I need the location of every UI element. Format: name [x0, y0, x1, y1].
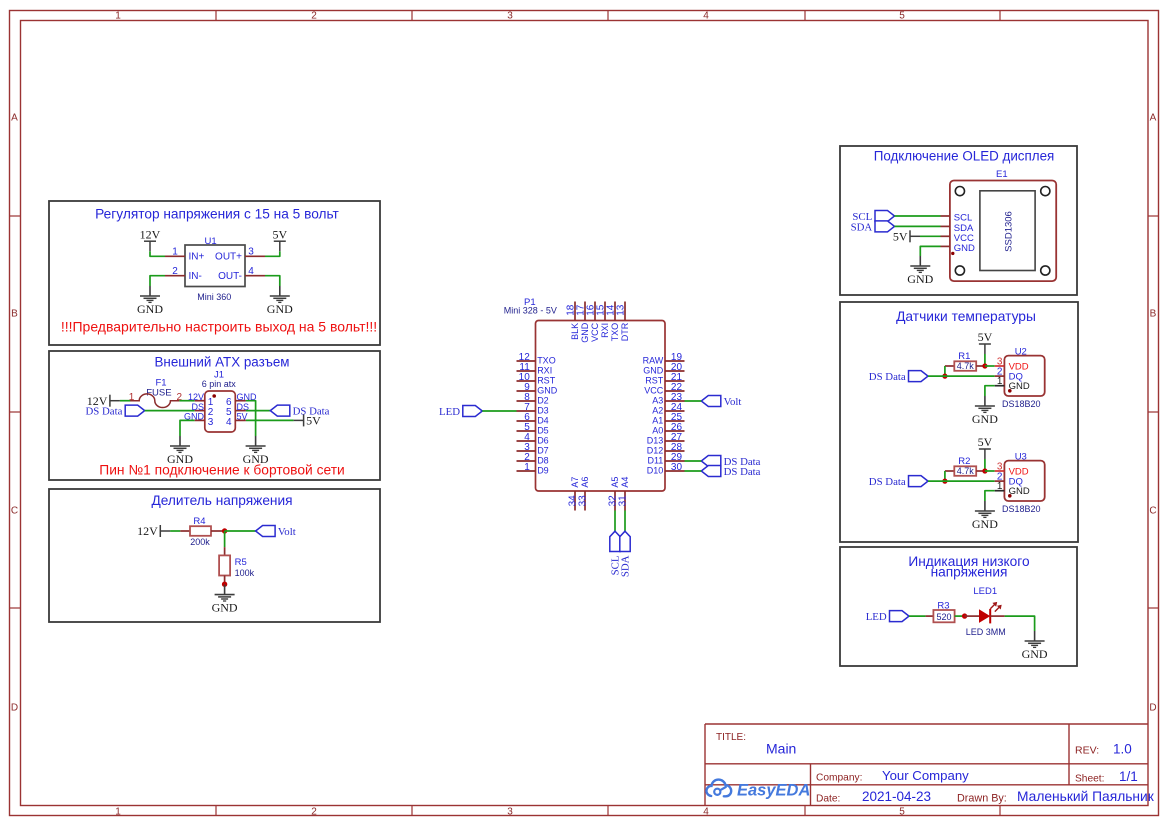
pin 26 (A0): [652, 422, 684, 436]
svg-text:1/1: 1/1: [1119, 769, 1138, 784]
temperature sensor U3: [995, 452, 1045, 515]
pin 25 (A1): [652, 412, 684, 426]
svg-text:GND: GND: [643, 366, 664, 376]
svg-text:GND: GND: [907, 272, 933, 286]
svg-text:5V: 5V: [893, 229, 908, 243]
power flag 12V (regulator): [140, 227, 161, 251]
wire: [246, 401, 256, 436]
pin 20 (GND): [643, 362, 684, 376]
svg-text:A7: A7: [570, 477, 580, 488]
net port Volt (divider): [256, 526, 296, 538]
svg-text:DTR: DTR: [620, 322, 630, 341]
wire: [920, 235, 941, 237]
svg-text:4: 4: [226, 417, 232, 428]
svg-text:B: B: [1150, 309, 1157, 320]
svg-text:DS Data: DS Data: [869, 371, 906, 383]
pin 33 (A6): [577, 477, 590, 511]
svg-text:3: 3: [507, 807, 513, 818]
svg-text:D12: D12: [647, 446, 664, 456]
pin 7 (D3): [517, 402, 549, 416]
svg-text:DS: DS: [191, 402, 204, 412]
net port LED (indicator): [866, 611, 909, 623]
svg-text:OUT+: OUT+: [215, 252, 242, 263]
svg-text:TXO: TXO: [537, 356, 556, 366]
wire: [920, 246, 940, 256]
wire: [170, 530, 180, 532]
svg-text:3: 3: [208, 417, 214, 428]
svg-text:1: 1: [115, 807, 121, 818]
wire: [928, 480, 995, 482]
resistor R5: [219, 547, 255, 584]
net port SCL (mcu): [609, 531, 621, 575]
svg-text:Sheet:: Sheet:: [1075, 774, 1104, 785]
svg-text:GND: GND: [537, 386, 558, 396]
resistor R1: [945, 351, 985, 371]
svg-text:Drawn By:: Drawn By:: [957, 793, 1007, 805]
svg-text:Датчики температуры: Датчики температуры: [896, 309, 1036, 324]
svg-text:4: 4: [248, 266, 254, 277]
fuse F1: [129, 378, 183, 408]
connector J1: [184, 370, 257, 433]
svg-text:D: D: [11, 703, 18, 714]
wire: [624, 511, 626, 532]
svg-text:GND: GND: [972, 517, 998, 531]
svg-text:GND: GND: [137, 302, 163, 316]
pin 4 (D6): [517, 432, 549, 446]
svg-text:DS Data: DS Data: [724, 466, 761, 478]
svg-text:REV:: REV:: [1075, 745, 1099, 757]
OLED display E1: [941, 169, 1057, 281]
wire: [895, 225, 941, 227]
pin 30 (D10): [647, 462, 685, 476]
svg-text:RXI: RXI: [537, 366, 552, 376]
pin 14 (TXO): [605, 302, 620, 342]
microcontroller module P1: [504, 297, 665, 491]
section box: temperature sensors: [840, 302, 1078, 542]
svg-text:VCC: VCC: [644, 386, 664, 396]
svg-text:1: 1: [129, 392, 135, 403]
svg-text:EasyEDA: EasyEDA: [737, 782, 810, 800]
wire: [145, 410, 195, 412]
wire: [265, 251, 280, 256]
net port DS Data (U2): [869, 371, 928, 383]
svg-text:DS Data: DS Data: [869, 476, 906, 488]
pin 9 (GND): [517, 382, 558, 396]
wire: [985, 386, 995, 396]
svg-text:D11: D11: [647, 456, 663, 466]
section box: OLED display: [840, 146, 1077, 295]
section box: external ATX connector: [49, 351, 380, 480]
svg-text:RST: RST: [645, 376, 664, 386]
svg-text:DS18B20: DS18B20: [1002, 399, 1041, 409]
ground: [972, 396, 998, 426]
svg-text:A: A: [1150, 113, 1157, 124]
svg-text:12V: 12V: [140, 227, 161, 241]
svg-text:FUSE: FUSE: [146, 387, 171, 398]
pin 15 (RXI): [595, 302, 610, 338]
ground: [1022, 631, 1048, 661]
net port DS Data (mcu D11): [701, 456, 760, 468]
svg-text:33: 33: [577, 495, 588, 507]
ground: [907, 256, 933, 286]
svg-text:Company:: Company:: [816, 773, 862, 784]
pin 23 (A3): [652, 392, 684, 406]
svg-text:GND: GND: [1009, 381, 1030, 392]
svg-text:1: 1: [997, 481, 1003, 492]
svg-text:A0: A0: [652, 426, 663, 436]
wire: [944, 366, 946, 376]
ground: [972, 501, 998, 531]
svg-text:Регулятор напряжения с 15 на 5: Регулятор напряжения с 15 на 5 вольт: [95, 207, 339, 222]
svg-text:RAW: RAW: [643, 356, 664, 366]
wire: [246, 419, 294, 421]
net port LED (mcu): [439, 406, 482, 418]
svg-text:D9: D9: [537, 466, 549, 476]
net port SCL (oled): [852, 211, 894, 223]
wire: [150, 251, 165, 256]
svg-text:OUT-: OUT-: [218, 271, 242, 282]
net port DS Data (atx left): [86, 405, 145, 417]
svg-text:B: B: [11, 309, 18, 320]
svg-text:U1: U1: [205, 236, 217, 247]
section box: low voltage indication: [840, 547, 1077, 666]
svg-text:!!!Предварительно настроить вы: !!!Предварительно настроить выход на 5 в…: [61, 319, 377, 335]
svg-text:GND: GND: [1022, 647, 1048, 661]
pin 8 (D2): [517, 392, 549, 406]
svg-text:IN+: IN+: [189, 252, 205, 263]
svg-text:13: 13: [615, 304, 626, 316]
power flag 5V (oled): [893, 229, 920, 243]
svg-text:C: C: [11, 506, 18, 517]
junction: [942, 479, 947, 484]
svg-text:30: 30: [671, 462, 683, 473]
pin 28 (D12): [647, 442, 685, 456]
svg-text:5: 5: [899, 11, 905, 22]
svg-text:SDA: SDA: [619, 555, 631, 577]
svg-text:TITLE:: TITLE:: [716, 732, 746, 743]
svg-text:Mini 328 - 5V: Mini 328 - 5V: [504, 305, 557, 315]
pin 12 (TXO): [517, 352, 556, 366]
pin 19 (RAW): [643, 352, 685, 366]
svg-text:5V: 5V: [978, 435, 993, 449]
svg-text:Main: Main: [766, 741, 796, 757]
wire: [909, 615, 926, 617]
junction: [982, 363, 987, 368]
svg-text:4: 4: [703, 807, 709, 818]
pin 13 (DTR): [615, 302, 630, 342]
ground: [137, 286, 163, 316]
svg-text:VCC: VCC: [590, 322, 600, 342]
svg-text:1: 1: [115, 11, 121, 22]
svg-text:SDA: SDA: [851, 221, 873, 233]
svg-text:LED: LED: [866, 611, 887, 623]
svg-text:E1: E1: [996, 169, 1008, 180]
svg-text:3: 3: [248, 247, 254, 258]
svg-text:LED1: LED1: [973, 586, 997, 597]
wire: [685, 400, 702, 402]
svg-text:D4: D4: [537, 416, 549, 426]
resistor R4: [180, 516, 224, 547]
svg-text:C: C: [1149, 506, 1156, 517]
svg-text:RXI: RXI: [600, 323, 610, 338]
header text LED indication: [908, 554, 1030, 580]
svg-text:A5: A5: [610, 477, 620, 488]
wire: [944, 471, 946, 481]
pin 10 (RST): [517, 372, 556, 386]
power flag 5V (U3): [978, 435, 993, 459]
resistor R3: [926, 600, 964, 622]
svg-text:Volt: Volt: [724, 396, 742, 408]
svg-text:5V: 5V: [237, 412, 248, 422]
svg-text:5V: 5V: [272, 227, 287, 241]
wire: [685, 470, 702, 472]
svg-text:GND: GND: [954, 243, 975, 254]
junction: [222, 528, 227, 533]
svg-text:3: 3: [507, 11, 513, 22]
svg-text:12V: 12V: [188, 392, 204, 402]
pin 11 (RXI): [517, 362, 553, 376]
svg-text:SCL: SCL: [954, 213, 972, 224]
resistor R2: [945, 456, 985, 476]
svg-text:4.7k: 4.7k: [957, 466, 975, 476]
section box: voltage divider: [49, 489, 380, 622]
net port DS Data (mcu D10): [701, 466, 760, 478]
pin 21 (RST): [645, 372, 684, 386]
net port DS Data (U3): [869, 476, 928, 488]
pin 6 (D4): [517, 412, 549, 426]
wire: [180, 420, 195, 436]
svg-text:200k: 200k: [190, 537, 210, 547]
wire: [482, 410, 516, 412]
ground: [243, 436, 269, 466]
svg-text:1: 1: [524, 462, 530, 473]
wire: [179, 400, 194, 402]
net port Volt (mcu): [701, 396, 741, 408]
svg-text:Mini 360: Mini 360: [197, 292, 231, 302]
svg-text:A4: A4: [620, 477, 630, 488]
svg-text:Делитель напряжения: Делитель напряжения: [151, 493, 292, 508]
svg-text:Маленький Паяльник: Маленький Паяльник: [1017, 789, 1155, 804]
wire: [225, 530, 256, 532]
ground: [167, 436, 193, 466]
pin 18 (BLK): [565, 302, 580, 340]
junction: [222, 582, 227, 587]
svg-text:Volt: Volt: [278, 526, 296, 538]
svg-text:5V: 5V: [306, 414, 321, 428]
svg-text:A2: A2: [652, 406, 663, 416]
pin 22 (VCC): [644, 382, 684, 396]
svg-text:A3: A3: [652, 396, 663, 406]
regulator U1: [165, 236, 265, 302]
svg-text:4: 4: [703, 11, 709, 22]
svg-text:GND: GND: [243, 452, 269, 466]
power flag 12V (atx): [87, 394, 120, 408]
svg-text:Date:: Date:: [816, 794, 840, 805]
power flag 5V (regulator): [272, 227, 287, 251]
pin 34 (A7): [567, 477, 580, 511]
junction: [982, 468, 987, 473]
svg-text:4.7k: 4.7k: [957, 361, 975, 371]
title block: [705, 724, 1155, 806]
svg-text:520: 520: [936, 612, 951, 622]
svg-text:2021-04-23: 2021-04-23: [862, 789, 931, 804]
svg-text:D8: D8: [537, 456, 549, 466]
pin 27 (D13): [647, 432, 685, 446]
pin 29 (D11): [647, 452, 684, 466]
svg-text:A: A: [11, 113, 18, 124]
svg-text:2: 2: [311, 11, 317, 22]
svg-text:D: D: [1149, 703, 1156, 714]
pin 2 (D8): [517, 452, 549, 466]
svg-text:GND: GND: [267, 302, 293, 316]
svg-text:IN-: IN-: [189, 271, 202, 282]
wire: [120, 400, 131, 402]
svg-text:6 pin atx: 6 pin atx: [202, 379, 237, 389]
svg-text:A1: A1: [652, 416, 663, 426]
power flag 5V (U2): [978, 330, 993, 354]
wire: [928, 375, 995, 377]
power flag 12V (divider): [137, 524, 170, 538]
temperature sensor U2: [995, 347, 1045, 410]
pin 32 (A5): [607, 477, 620, 511]
svg-text:2: 2: [311, 807, 317, 818]
svg-text:TXO: TXO: [610, 323, 620, 342]
pin 1 (D9): [517, 462, 549, 476]
wire: [985, 365, 995, 367]
svg-text:100k: 100k: [235, 568, 255, 578]
wire: [685, 460, 702, 462]
svg-text:LED 3MM: LED 3MM: [966, 627, 1006, 637]
svg-text:31: 31: [617, 495, 628, 507]
svg-text:5: 5: [899, 807, 905, 818]
svg-text:GND: GND: [184, 412, 205, 422]
svg-text:RST: RST: [537, 376, 556, 386]
wire: [1005, 616, 1035, 631]
wire: [150, 276, 165, 286]
svg-text:DS Data: DS Data: [86, 406, 123, 418]
ground: [212, 585, 238, 615]
junction: [962, 613, 967, 618]
svg-text:Пин №1 подключение к бортовой: Пин №1 подключение к бортовой сети: [99, 463, 344, 478]
LED LED1: [965, 586, 1006, 637]
net port SDA (mcu): [619, 531, 631, 577]
ground: [267, 286, 293, 316]
section box: voltage regulator: [49, 201, 380, 345]
svg-text:D3: D3: [537, 406, 549, 416]
wire: [224, 531, 226, 547]
svg-text:D7: D7: [537, 446, 549, 456]
svg-text:1: 1: [172, 247, 178, 258]
svg-text:1.0: 1.0: [1113, 742, 1132, 757]
wire: [246, 410, 270, 412]
svg-text:Your Company: Your Company: [882, 768, 969, 783]
wire: [985, 491, 995, 501]
pin 3 (D7): [517, 442, 549, 456]
svg-text:R5: R5: [235, 557, 247, 568]
svg-text:5V: 5V: [978, 330, 993, 344]
net port DS Data (atx right): [270, 405, 329, 417]
junction: [942, 374, 947, 379]
svg-text:GND: GND: [212, 600, 238, 614]
svg-text:1: 1: [997, 376, 1003, 387]
net port SDA (oled): [851, 221, 895, 233]
svg-text:DS18B20: DS18B20: [1002, 504, 1041, 514]
svg-text:GND: GND: [167, 452, 193, 466]
pin 5 (D5): [517, 422, 549, 436]
svg-text:D10: D10: [647, 466, 664, 476]
wire: [985, 470, 995, 472]
svg-text:2: 2: [172, 266, 178, 277]
svg-text:D2: D2: [537, 396, 549, 406]
svg-text:SSD1306: SSD1306: [1004, 211, 1015, 252]
svg-text:D6: D6: [537, 436, 549, 446]
svg-text:12V: 12V: [137, 524, 158, 538]
svg-text:A6: A6: [580, 477, 590, 488]
pin 24 (A2): [652, 402, 684, 416]
pin 16 (VCC): [585, 302, 600, 342]
pin 31 (A4): [617, 477, 630, 511]
wire: [895, 215, 941, 217]
EasyEDA logo: [706, 780, 810, 800]
wire: [984, 354, 986, 366]
svg-text:D5: D5: [537, 426, 549, 436]
power flag 5V (atx): [294, 414, 322, 428]
svg-text:LED: LED: [439, 406, 460, 418]
svg-text:GND: GND: [972, 412, 998, 426]
svg-text:GND: GND: [580, 322, 590, 343]
wire: [984, 459, 986, 471]
svg-text:напряжения: напряжения: [931, 565, 1008, 580]
wire: [265, 276, 280, 286]
svg-text:Внешний ATX разъем: Внешний ATX разъем: [155, 355, 290, 370]
svg-text:GND: GND: [1009, 486, 1030, 497]
svg-text:BLK: BLK: [570, 323, 580, 340]
svg-text:D13: D13: [647, 436, 664, 446]
wire: [614, 511, 616, 532]
svg-text:Подключение OLED дисплея: Подключение OLED дисплея: [874, 149, 1055, 164]
pin 17 (GND): [575, 302, 590, 343]
